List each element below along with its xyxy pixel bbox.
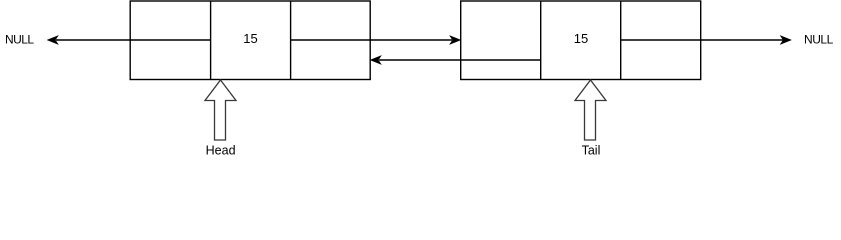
arrowhead into node1 <box>371 56 381 64</box>
node1 prev/data divider <box>210 1 212 80</box>
svg-text:NULL: NULL <box>5 33 34 47</box>
arrowhead into node2 <box>450 36 460 44</box>
node1 data/next divider <box>290 1 292 80</box>
wire node1.next to node2 <box>291 39 452 41</box>
svg-text:Head: Head <box>206 143 236 157</box>
svg-text:15: 15 <box>574 31 588 46</box>
arrowhead left NULL <box>48 36 58 44</box>
node2 data/next divider <box>620 1 622 80</box>
arrowhead right NULL <box>781 36 791 44</box>
head block arrow <box>205 80 236 140</box>
node2 prev/data divider <box>540 1 542 80</box>
svg-text:NULL: NULL <box>804 33 834 47</box>
wire node1.prev to NULL <box>56 39 211 41</box>
svg-text:15: 15 <box>243 31 257 46</box>
node1 box <box>130 1 370 80</box>
tail block arrow <box>575 80 606 140</box>
wire node2.next to NULL <box>621 39 783 41</box>
node2 box <box>461 1 701 80</box>
wire node2.prev to node1 <box>379 59 541 61</box>
svg-text:Tail: Tail <box>582 143 601 157</box>
